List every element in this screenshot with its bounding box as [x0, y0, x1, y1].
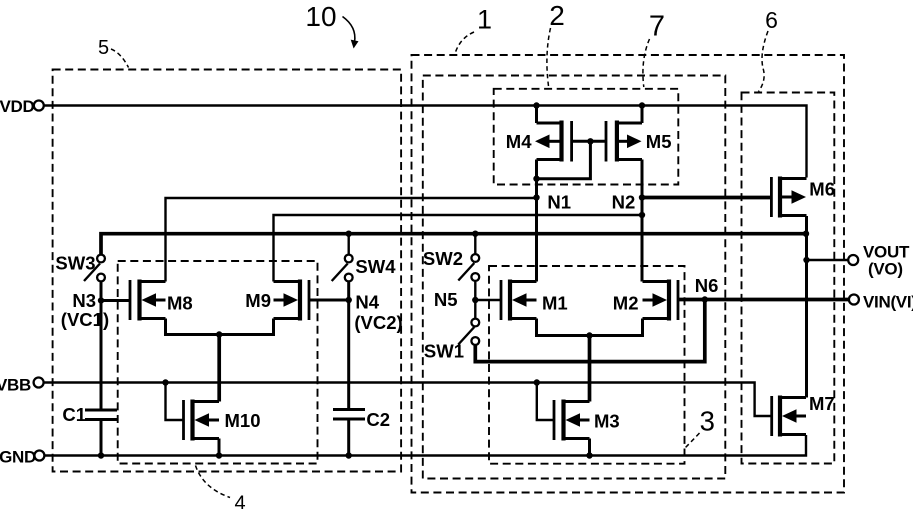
- dashed block 5 (compensation voltage generator): [53, 70, 402, 472]
- svg-text:3: 3: [700, 406, 715, 437]
- numeral 10 arrow: [343, 17, 355, 43]
- wire SW4 top drop: [348, 234, 350, 255]
- wire M4 drain vertical through N1 to M1 drain: [535, 160, 538, 282]
- svg-text:M6: M6: [809, 179, 835, 200]
- junction VBB-M3 gate: [534, 379, 540, 385]
- node N6 junction: [702, 296, 708, 302]
- wire M9 gate to node N4: [309, 299, 349, 302]
- junction GND-M10: [216, 452, 222, 458]
- leader 1: [455, 32, 474, 54]
- svg-text:SW3: SW3: [55, 253, 95, 274]
- wire tail to M3 drain: [588, 336, 592, 402]
- VOUT terminal: [848, 255, 858, 265]
- svg-text:C1: C1: [62, 404, 86, 425]
- wire M4 source to VDD: [535, 106, 538, 124]
- svg-text:(VC2): (VC2): [354, 312, 402, 333]
- junction M4/M5 gate tie: [587, 138, 593, 144]
- svg-text:M3: M3: [594, 411, 620, 432]
- junction GND-C2: [346, 452, 352, 458]
- svg-text:1: 1: [477, 4, 492, 34]
- svg-text:C2: C2: [366, 409, 390, 430]
- wire M9 drain to node N2: [274, 215, 643, 282]
- svg-text:M10: M10: [225, 410, 261, 431]
- wire M10 source to GND: [218, 439, 221, 456]
- transistor M8: [130, 280, 166, 321]
- capacitor C1: [85, 410, 117, 420]
- svg-text:N4: N4: [355, 292, 379, 313]
- junction VBB-M10 gate: [162, 379, 168, 385]
- transistor M2: [643, 280, 679, 321]
- wire node N6 / VIN line: [678, 298, 849, 302]
- VDD terminal: [34, 101, 44, 111]
- VIN terminal: [849, 295, 859, 305]
- transistor M1: [501, 280, 537, 321]
- node N3 junction: [98, 297, 104, 303]
- junction M4 drain diode tie: [533, 176, 539, 182]
- dashed block 6 (output stage): [742, 93, 835, 464]
- wire node N5 to M1 gate: [475, 299, 501, 301]
- svg-text:N3: N3: [72, 290, 96, 311]
- leader 5: [111, 49, 129, 68]
- transistor M5: [606, 121, 642, 162]
- junction VDD-M4: [533, 102, 539, 108]
- svg-text:M7: M7: [809, 393, 835, 414]
- wire SW3 bottom through N3 to C1: [100, 281, 103, 409]
- wire node N3 to M8 gate: [101, 299, 130, 302]
- wire M8 drain to node N1: [166, 198, 537, 282]
- node N4 junction: [346, 297, 352, 303]
- svg-text:VBB: VBB: [0, 376, 31, 395]
- leader 3: [685, 433, 700, 449]
- leader 4: [196, 466, 231, 498]
- svg-text:SW2: SW2: [423, 248, 463, 269]
- wire VOUT stub: [807, 259, 849, 261]
- wire gate tie to M4 drain (diode connection): [537, 141, 591, 178]
- dashed block 2 (differential amplifier): [423, 76, 726, 479]
- junction feedback at M6 drain: [803, 231, 809, 237]
- wire M1-M2 common source tail: [537, 319, 643, 336]
- GND rail: [44, 435, 806, 456]
- VDD rail: [44, 106, 807, 178]
- junction output-VOUT stub: [803, 257, 809, 263]
- switch SW1: [458, 319, 479, 345]
- svg-text:SW1: SW1: [424, 341, 464, 362]
- junction M8/M9 tail: [216, 331, 222, 337]
- wire C2 bottom to GND: [347, 420, 350, 456]
- wire tail to M10 drain: [217, 335, 221, 402]
- wire M5 source to VDD: [641, 106, 644, 124]
- junction GND-C1: [98, 452, 104, 458]
- svg-text:2: 2: [549, 0, 565, 31]
- svg-text:M4: M4: [506, 131, 532, 152]
- junction feedback-SW4: [346, 231, 352, 237]
- wire M5 drain vertical through N2 to M2 drain: [641, 160, 644, 282]
- node N5 junction: [472, 297, 478, 303]
- svg-text:5: 5: [98, 37, 109, 59]
- leader 7: [643, 39, 650, 87]
- wire SW2 bottom through N5 to SW1 top: [474, 281, 476, 319]
- svg-text:(VC1): (VC1): [61, 309, 109, 330]
- svg-text:N6: N6: [695, 275, 719, 296]
- VBB rail: [44, 383, 772, 417]
- node N1 junction: [533, 194, 539, 200]
- svg-text:N5: N5: [434, 289, 458, 310]
- junction feedback-SW2: [472, 231, 478, 237]
- dashed block 3 (input pair block): [489, 266, 685, 464]
- transistor M7: [772, 396, 806, 437]
- svg-text:M9: M9: [245, 290, 271, 311]
- svg-text:GND: GND: [0, 448, 36, 467]
- svg-text:SW4: SW4: [355, 256, 396, 277]
- svg-text:N2: N2: [612, 192, 636, 213]
- wire output node vertical M6 drain to M7 drain: [805, 216, 808, 398]
- wire SW4 bottom through N4 to C2: [347, 281, 350, 409]
- svg-text:VDD: VDD: [0, 97, 35, 116]
- dashed block 7 (current mirror load): [494, 89, 679, 185]
- svg-text:M1: M1: [542, 293, 568, 314]
- VBB terminal: [34, 378, 44, 388]
- wire M4-M5 common gate tie: [572, 140, 606, 143]
- transistor M9: [274, 280, 310, 321]
- capacitor C2: [333, 410, 365, 420]
- svg-text:7: 7: [649, 11, 665, 43]
- wire SW1 bottom to node N6: [475, 300, 705, 362]
- wire M10 gate to VBB: [166, 383, 184, 421]
- svg-text:10: 10: [305, 1, 336, 32]
- leader 2: [547, 28, 551, 86]
- transistor M10: [184, 400, 220, 441]
- switch SW4: [332, 255, 353, 282]
- wire M3 source to GND: [588, 439, 591, 456]
- node N2 junction: [639, 194, 645, 200]
- junction M1/M2 tail: [586, 332, 592, 338]
- junction GND-M3: [586, 452, 592, 458]
- svg-text:M5: M5: [646, 131, 672, 152]
- wire node N2 to M6 gate: [642, 196, 771, 200]
- transistor M6: [771, 177, 806, 218]
- svg-text:M8: M8: [167, 293, 193, 314]
- leader 6: [759, 31, 769, 92]
- wire SW2 top drop: [474, 234, 476, 254]
- junction VDD-M5: [639, 102, 645, 108]
- svg-text:4: 4: [234, 493, 245, 509]
- switch SW2: [458, 254, 479, 281]
- switch SW3: [84, 255, 105, 282]
- svg-text:6: 6: [765, 7, 778, 33]
- wire M8-M9 common source tail: [166, 319, 274, 335]
- svg-text:(VO): (VO): [868, 260, 903, 279]
- svg-text:N1: N1: [547, 192, 571, 213]
- transistor M3: [554, 400, 590, 441]
- dashed block 4 (bias block): [118, 261, 318, 464]
- wire feedback line from SW3 top to M6 drain: [101, 234, 806, 256]
- transistor M4: [535, 121, 572, 162]
- svg-text:M2: M2: [613, 293, 639, 314]
- wire M3 gate to VBB: [537, 383, 554, 421]
- junction M9 drain line at N2 branch: [639, 212, 645, 218]
- dashed block 1 (comparator): [412, 55, 845, 493]
- wire C1 bottom to GND: [100, 421, 103, 456]
- GND terminal: [34, 451, 44, 461]
- svg-text:VIN(VI): VIN(VI): [863, 293, 913, 312]
